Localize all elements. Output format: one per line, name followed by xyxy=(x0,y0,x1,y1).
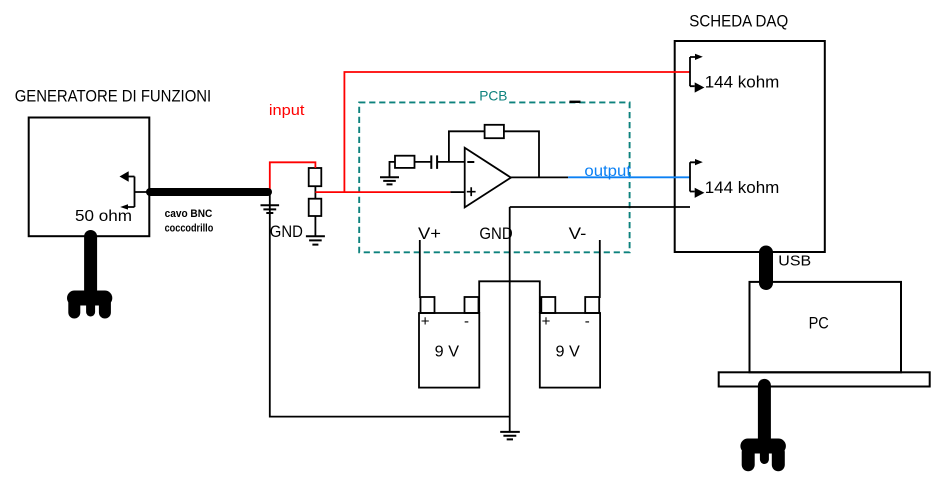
svg-text:PC: PC xyxy=(809,313,829,332)
svg-text:PCB: PCB xyxy=(479,88,507,104)
svg-text:144 kohm: 144 kohm xyxy=(705,73,780,92)
svg-text:-: - xyxy=(585,313,590,330)
svg-text:50 ohm: 50 ohm xyxy=(75,208,132,225)
svg-text:-: - xyxy=(464,313,469,330)
svg-text:cavo BNC: cavo BNC xyxy=(165,208,213,220)
svg-text:V+: V+ xyxy=(418,224,441,243)
svg-text:GND: GND xyxy=(270,222,303,241)
svg-text:input: input xyxy=(269,103,305,119)
svg-text:GND: GND xyxy=(479,224,512,243)
svg-text:+: + xyxy=(542,313,551,330)
svg-text:9 V: 9 V xyxy=(435,343,460,360)
svg-text:output: output xyxy=(584,163,631,180)
svg-text:SCHEDA DAQ: SCHEDA DAQ xyxy=(689,12,788,31)
svg-text:+: + xyxy=(421,313,430,330)
svg-text:GENERATORE DI FUNZIONI: GENERATORE DI FUNZIONI xyxy=(15,87,212,106)
svg-text:V-: V- xyxy=(569,224,587,243)
svg-text:9 V: 9 V xyxy=(556,343,581,360)
svg-text:coccodrillo: coccodrillo xyxy=(165,222,214,234)
svg-text:144 kohm: 144 kohm xyxy=(705,178,780,197)
svg-text:USB: USB xyxy=(778,252,811,269)
